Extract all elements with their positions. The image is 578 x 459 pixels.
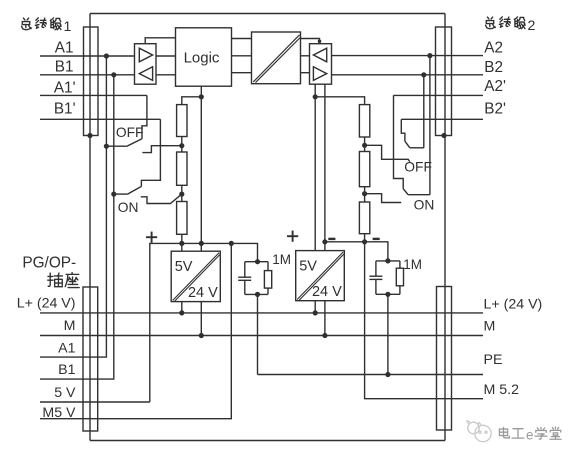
svg-text:5 V: 5 V: [54, 385, 76, 401]
svg-text:PG/OP-: PG/OP-: [22, 254, 76, 271]
svg-text:M 5.2: M 5.2: [484, 382, 520, 398]
svg-text:B1: B1: [58, 362, 75, 378]
svg-text:A1': A1': [54, 79, 76, 96]
svg-text:Logic: Logic: [184, 50, 220, 67]
svg-text:M: M: [64, 318, 76, 334]
svg-text:L+ (24 V): L+ (24 V): [17, 296, 76, 312]
svg-text:B1': B1': [54, 101, 76, 118]
svg-text:5V: 5V: [175, 259, 193, 275]
svg-text:e: e: [526, 428, 534, 443]
svg-text:5V: 5V: [299, 259, 317, 275]
svg-text:PE: PE: [484, 352, 503, 368]
svg-text:A1: A1: [55, 39, 74, 56]
svg-text:A2': A2': [484, 78, 506, 95]
svg-text:M: M: [484, 319, 496, 335]
svg-text:M5 V: M5 V: [42, 405, 76, 421]
svg-text:OFF: OFF: [404, 160, 432, 175]
svg-text:1: 1: [64, 19, 72, 35]
svg-text:B1: B1: [55, 59, 74, 76]
svg-text:OFF: OFF: [116, 125, 144, 140]
svg-text:24 V: 24 V: [188, 285, 218, 301]
svg-text:1M: 1M: [403, 257, 422, 272]
svg-text:L+ (24 V): L+ (24 V): [484, 297, 543, 313]
svg-text:ON: ON: [118, 200, 139, 215]
svg-text:B2: B2: [484, 59, 503, 76]
svg-text:A2: A2: [484, 40, 503, 57]
svg-text:A1: A1: [58, 340, 75, 356]
svg-text:1M: 1M: [272, 252, 291, 267]
svg-text:ON: ON: [414, 198, 435, 213]
svg-text:B2': B2': [484, 101, 506, 118]
svg-text:2: 2: [528, 18, 536, 34]
svg-text:24 V: 24 V: [312, 284, 342, 300]
